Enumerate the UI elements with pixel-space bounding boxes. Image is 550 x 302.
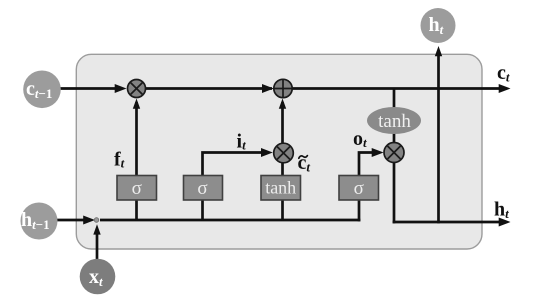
node circle x_t [80,259,116,295]
node circle c_(t-1) [23,71,61,109]
gate box sigma1 (forget) [117,176,157,201]
wire: branch up to sigma2 [201,199,204,221]
multiply gate X3 (output) [384,143,404,163]
LSTM cell body [76,54,482,249]
gate box tanh (candidate) [261,176,301,201]
wire: h output line to the right [393,221,505,224]
multiply gate X1 (forget) [128,80,146,98]
wire: c path plus to output [290,87,505,90]
wire: branch up to h_t top circle [437,52,440,223]
wire: o_t elbow from sigma3 to mult3 [359,153,379,177]
gate box sigma2 (input) [184,176,223,201]
wire: branch up to tanh box [281,199,284,221]
wire: h line from h_(t-1) with gate branches [57,219,91,222]
node: junction dot on h line [94,218,99,223]
wire: mult3 down to h line [393,162,396,223]
wire: branch up to sigma3 [358,199,361,221]
wire: candidate path tanh box to mult2 [281,160,284,176]
wire: i_t elbow from sigma2 to mult2 [203,153,269,177]
node circle h_t top [421,8,456,43]
wire: c branch down through tanh ellipse to mult3 [393,89,396,144]
svg-text:ht: ht [494,199,509,222]
wire: c path mult to plus [140,87,272,90]
wire: forget gate up from sigma1 [135,102,138,176]
svg-text:σ: σ [354,178,364,199]
svg-text:σ: σ [197,178,207,199]
node circle h_(t-1) [21,203,58,240]
svg-text:ct: ct [497,62,510,85]
tanh ellipse [367,107,421,134]
wire: branch up to sigma1 [135,199,138,221]
wire: mult2 up to plus [281,102,284,146]
wire: c path from c_(t-1) to mult gate [58,87,122,90]
svg-text:σ: σ [132,178,142,199]
svg-text:tanh: tanh [378,111,411,132]
wire: x_t up into h line [96,229,99,259]
multiply gate X2 (candidate) [274,143,294,163]
gate box sigma3 (output) [339,176,379,201]
svg-text:tanh: tanh [265,178,296,198]
add gate (plus) [274,79,292,97]
